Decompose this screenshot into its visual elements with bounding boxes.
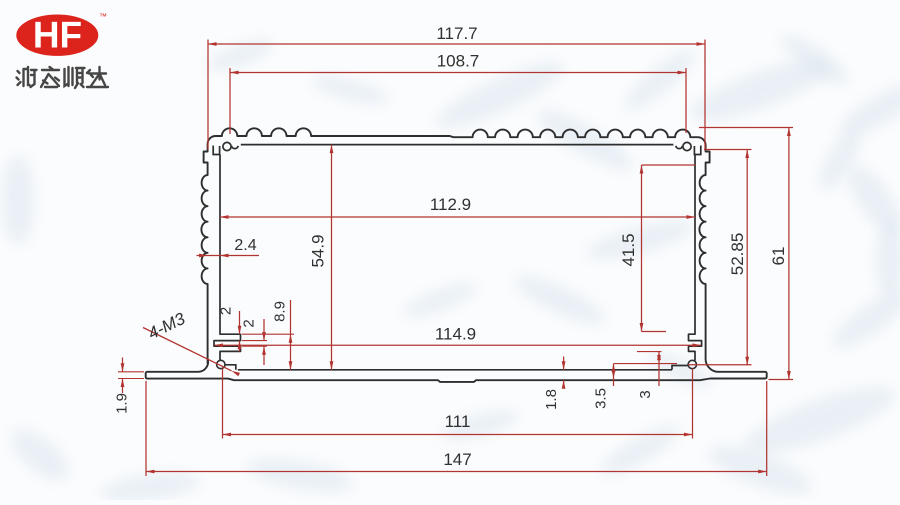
screw boss bottom-right	[688, 360, 696, 368]
svg-text:41.5: 41.5	[619, 233, 638, 266]
dimension 147 overall width	[146, 381, 767, 476]
dimension 1.8 base step	[543, 357, 566, 410]
logo red ellipse	[16, 15, 98, 56]
interior base top line	[238, 369, 672, 371]
left inner wall with PCB slot	[214, 155, 241, 361]
logo chinese characters 鸿发顺达 (drawn strokes)	[17, 67, 109, 88]
svg-text:112.9: 112.9	[430, 195, 471, 214]
right inner wall with slot	[689, 155, 702, 361]
dimension 112.9 inner width	[220, 195, 695, 219]
svg-text:114.9: 114.9	[435, 324, 476, 343]
svg-text:3: 3	[637, 390, 654, 398]
dimension 41.5 right inner	[619, 165, 695, 332]
screw port top-left	[213, 142, 238, 154]
svg-text:2: 2	[240, 319, 257, 327]
screw port top-right	[676, 142, 701, 154]
dimension 2.4 wall thickness	[197, 237, 260, 257]
dimension 54.9 inner height	[308, 145, 333, 370]
right foot bracket	[672, 366, 688, 370]
svg-text:111: 111	[445, 412, 471, 431]
svg-text:1.8: 1.8	[543, 389, 560, 410]
svg-text:52.85: 52.85	[728, 233, 747, 276]
svg-text:117.7: 117.7	[436, 24, 477, 43]
enclosure cover outer profile with fins	[201, 128, 709, 364]
svg-text:2: 2	[217, 307, 234, 315]
dimension 108.7 fin span	[230, 51, 686, 134]
svg-text:108.7: 108.7	[437, 51, 480, 70]
interior ceiling line	[241, 144, 674, 146]
svg-text:1.9: 1.9	[113, 393, 130, 414]
dimension 3 slot step	[637, 352, 662, 399]
dimension 2 rail slot	[240, 319, 267, 365]
dimension 1.9 flange thickness	[113, 358, 144, 414]
dimension 111 hole span	[223, 369, 693, 439]
dimension 114.9 slot width	[215, 324, 702, 347]
left foot bracket	[226, 365, 236, 370]
svg-text:3.5: 3.5	[592, 388, 609, 409]
label 4-M3 screw holes leader	[143, 309, 240, 376]
dimension 61 overall height	[699, 128, 793, 380]
svg-text:8.9: 8.9	[271, 301, 288, 322]
svg-text:147: 147	[443, 450, 471, 469]
dimension 3.5 base step	[592, 364, 677, 409]
svg-text:™: ™	[99, 12, 107, 21]
svg-text:HF: HF	[33, 14, 82, 55]
base plate flange outline	[146, 358, 767, 382]
svg-text:61: 61	[769, 247, 788, 266]
dimension 52.85	[688, 150, 752, 366]
dimension 8.9 rail height	[242, 300, 294, 370]
svg-text:54.9: 54.9	[308, 234, 327, 267]
screw boss bottom-left	[217, 360, 225, 368]
svg-text:2.4: 2.4	[234, 237, 256, 254]
dimension 117.7 top overall	[208, 24, 705, 150]
dimension 2 rail bar	[217, 307, 241, 352]
